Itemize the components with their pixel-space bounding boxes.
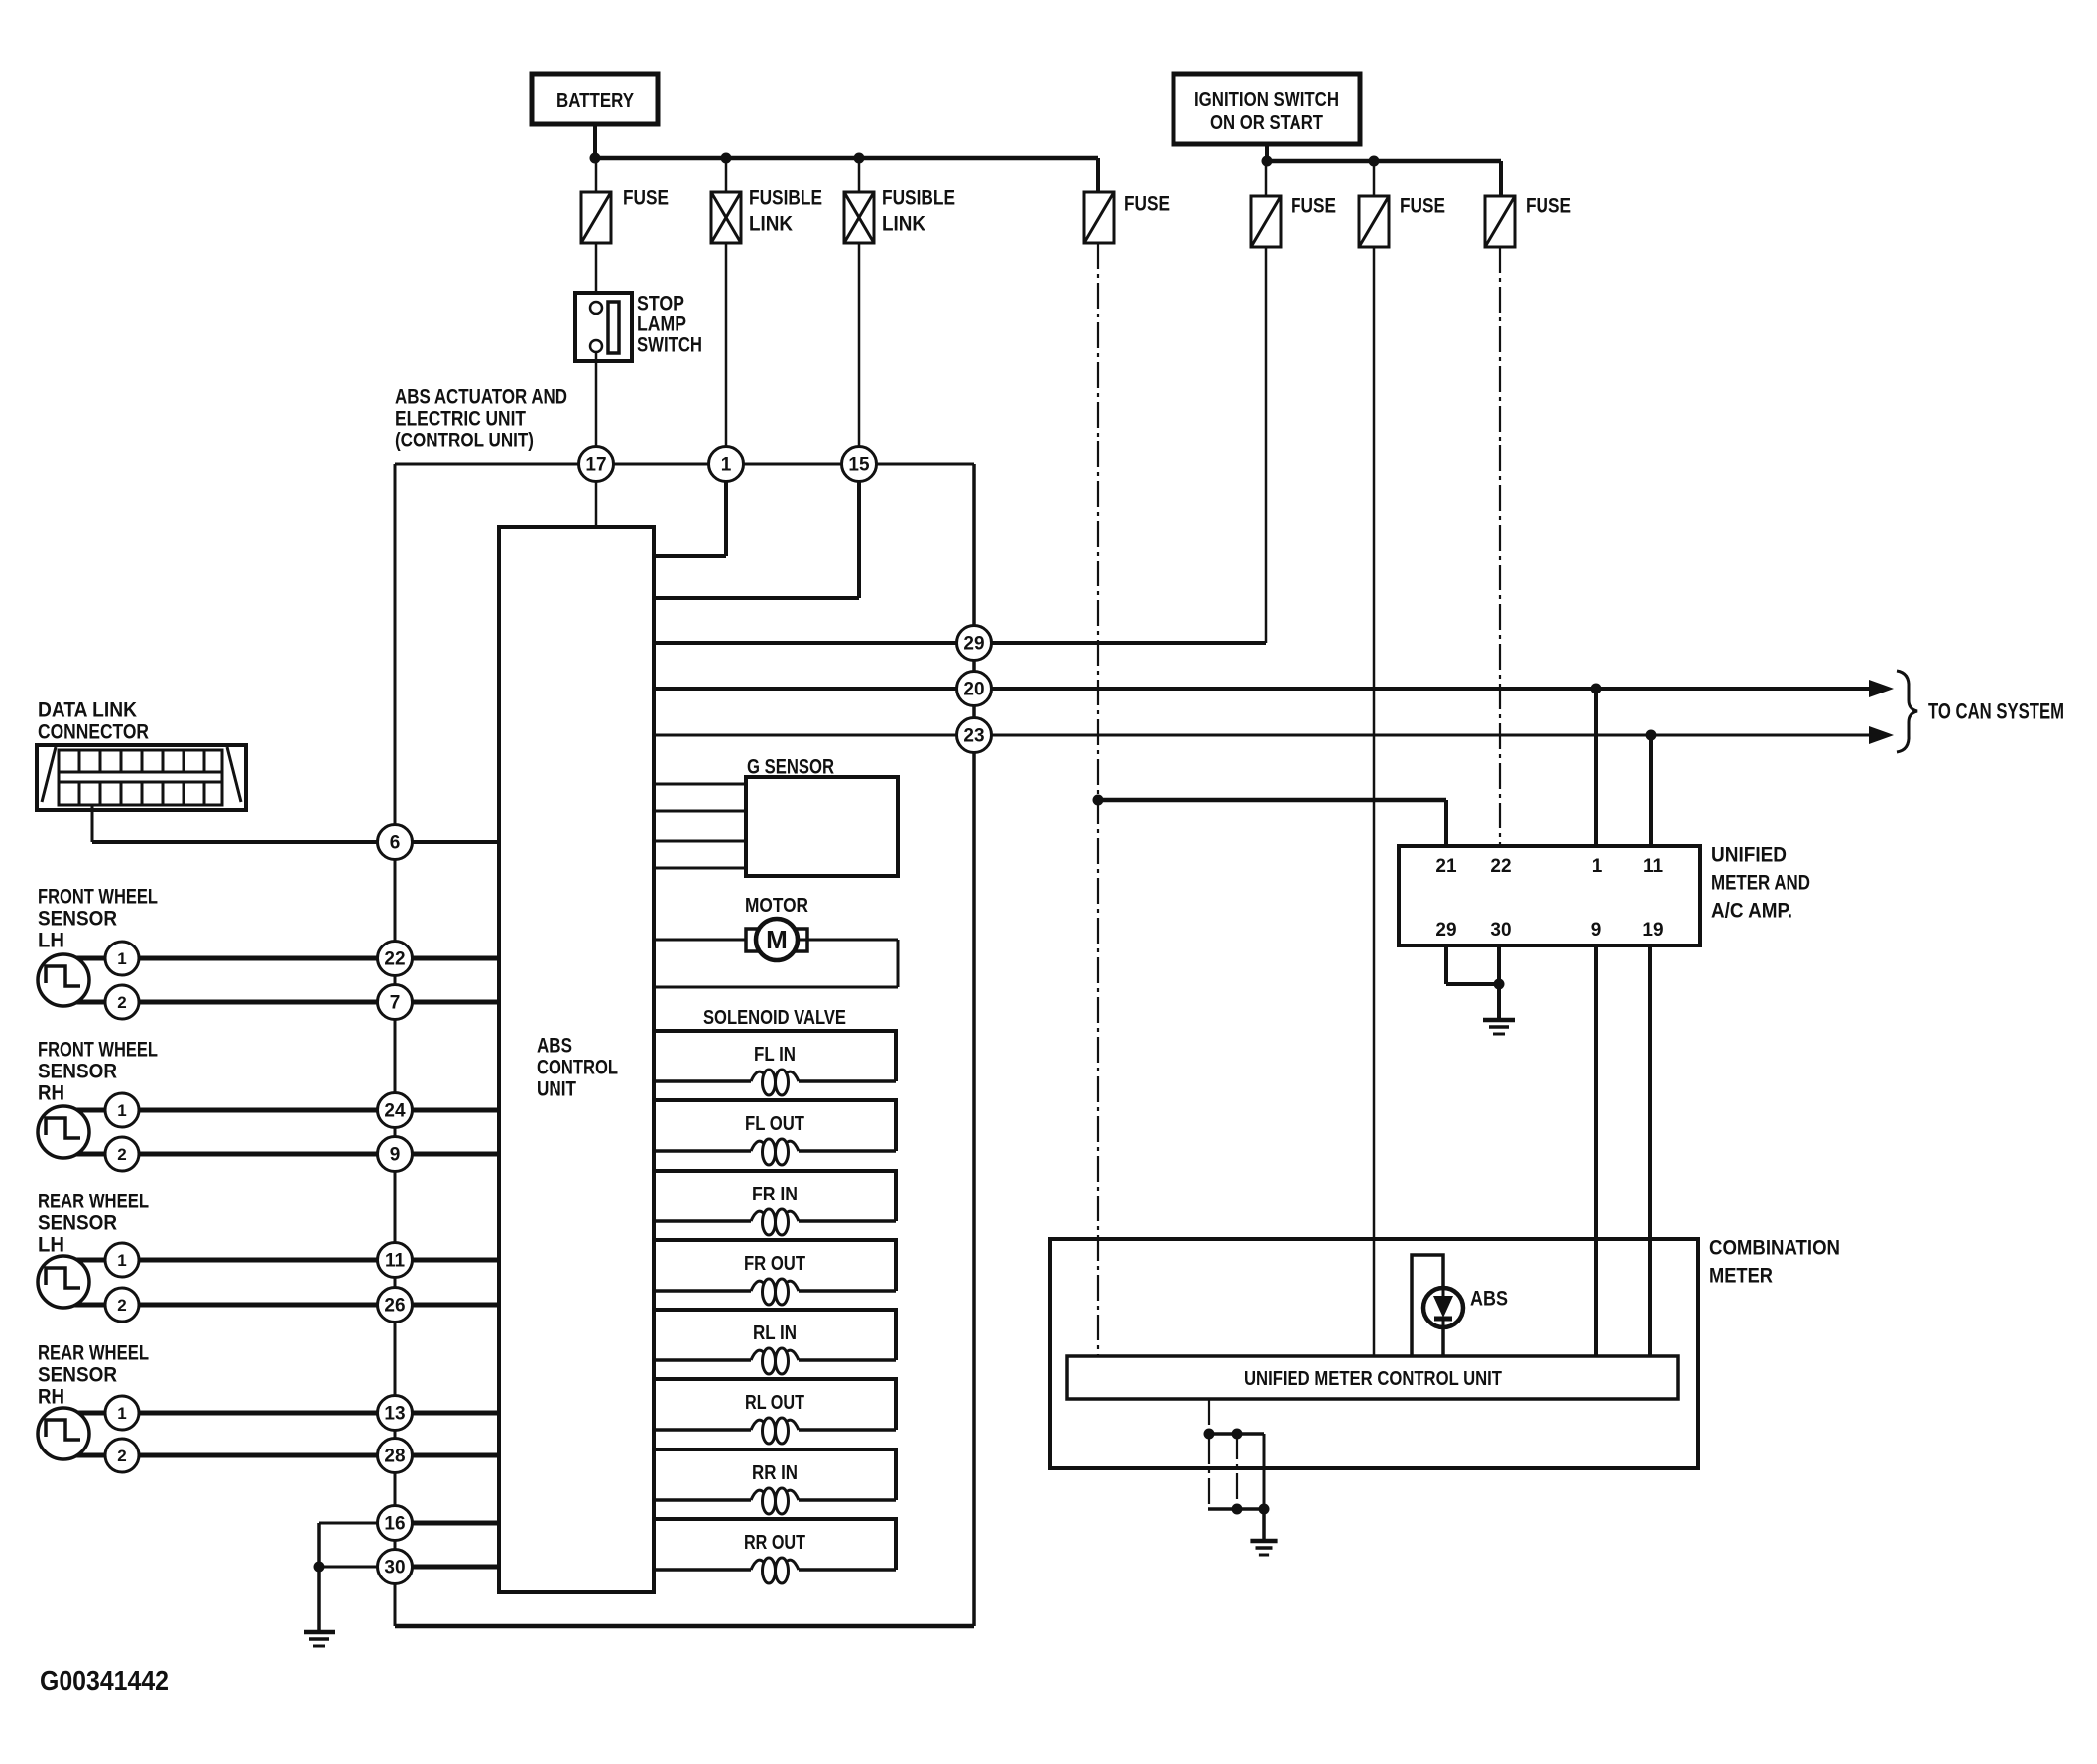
svg-text:1: 1 [1592,856,1603,877]
svg-text:2: 2 [117,1447,126,1465]
battery bus wire [595,156,1098,161]
stop lamp switch label [637,292,702,356]
wire sensor LH link1 [63,1258,109,1263]
wire fuse F4 branch to pin 21 [1098,800,1446,846]
pin 11 connector circle [378,1243,413,1278]
wire unified meter pin 29 to ground [1446,945,1499,984]
svg-text:FUSIBLE: FUSIBLE [882,187,955,209]
stop lamp switch plunger [608,302,619,353]
fusible link FL1 label [749,187,822,235]
junction CAN-H to unified meter pin 1 [1591,684,1602,694]
wire pin 23 CAN-L line [654,734,1871,737]
svg-text:21: 21 [1435,856,1457,877]
arrowhead CAN-L [1869,726,1894,744]
junction ignition bus at fuse F5 [1262,156,1273,167]
svg-text:RL OUT: RL OUT [745,1392,804,1414]
wire pin 29 line to ignition fuse F5 [654,641,1266,645]
sensor LH pin 2 circle [105,1288,139,1322]
svg-text:1: 1 [117,1101,126,1120]
pin 29 connector circle [957,626,992,661]
ground ABS control unit [304,1632,335,1646]
pin 1 connector circle [709,447,744,482]
wire pin 16 [319,1523,499,1634]
unified meter and A/C amp box [1399,846,1700,945]
wire fuse F5 down to CAN pin 29 line [1265,247,1268,643]
wire fuse F4 to unified meter control unit (dash-dot) [1097,243,1099,1356]
svg-text:UNIFIED: UNIFIED [1711,843,1787,866]
svg-text:LAMP: LAMP [637,313,686,335]
wire meter ground leg C [1263,1434,1266,1509]
svg-text:STOP: STOP [637,292,684,315]
junction tie bottom C [1259,1504,1270,1515]
wire fuse F1 to stop lamp switch [595,243,598,303]
svg-text:RH: RH [38,1385,64,1408]
pin 20 connector circle [957,672,992,706]
svg-text:ON OR START: ON OR START [1210,112,1323,134]
svg-text:BATTERY: BATTERY [556,90,635,112]
svg-text:IGNITION SWITCH: IGNITION SWITCH [1194,89,1339,111]
wire sensor LH link2 [63,1303,109,1308]
pin 16 connector circle [378,1506,413,1541]
ABS control unit label [537,1034,618,1100]
svg-text:ABS: ABS [537,1034,572,1057]
fuse F4 [1084,192,1114,243]
sensor RH pin 1 circle [105,1093,139,1127]
svg-text:REAR WHEEL: REAR WHEEL [38,1190,149,1212]
svg-text:SENSOR: SENSOR [38,1060,117,1082]
wire bus to fusible link FL2 [858,158,861,192]
pin 7 connector circle [378,985,413,1020]
combination meter label [1709,1236,1840,1287]
ignition bus wire [1267,159,1501,164]
svg-text:LH: LH [38,1233,64,1256]
svg-text:G SENSOR: G SENSOR [747,755,834,778]
G sensor wire 4 [654,867,746,870]
wire fusible link FL1 to pin 1 [725,243,728,447]
pin 26 connector circle [378,1288,413,1323]
wire rear wheel sensor RH pin 2 [95,1453,499,1458]
junction tie bottom B [1232,1504,1243,1515]
svg-text:UNIFIED METER CONTROL UNIT: UNIFIED METER CONTROL UNIT [1244,1368,1502,1390]
svg-text:13: 13 [384,1404,405,1425]
data link connector [37,745,246,810]
wire sensor LH link2 [63,1000,109,1005]
svg-text:ELECTRIC UNIT: ELECTRIC UNIT [395,407,526,430]
battery box [532,74,658,124]
pin 22 connector circle [378,942,413,976]
pin 24 connector circle [378,1093,413,1128]
fuse F6 [1359,196,1389,247]
stop lamp switch body [575,293,632,361]
svg-text:1: 1 [117,949,126,968]
junction battery bus at fusible link 2 [854,153,865,164]
pin 13 connector circle [378,1396,413,1431]
wire meter ground stem [1262,1509,1266,1541]
svg-text:ABS: ABS [1470,1287,1508,1310]
wire ABS warning lamp loop [1412,1255,1443,1356]
svg-text:DATA LINK: DATA LINK [38,698,137,721]
wire bus to fuse F5 [1265,161,1268,196]
solenoid valve RR OUT [654,1519,896,1583]
svg-text:FR IN: FR IN [752,1184,798,1205]
ABS actuator and electric unit outer box [395,464,974,1626]
wire sensor RH link1 [63,1411,109,1416]
svg-text:7: 7 [390,993,401,1014]
wire pin 15 riser [654,481,859,598]
ignition switch feed wire [1265,144,1269,161]
fuse F7 [1485,196,1515,247]
wire pin 1 riser [654,481,726,556]
svg-text:29: 29 [963,634,984,655]
wire meter ground tie top [1209,1432,1264,1436]
ground unified meter [1483,1020,1515,1034]
pin 6 connector circle [378,825,413,860]
wire sensor RH link2 [63,1152,109,1157]
wire meter ground tie bottom [1208,1507,1264,1511]
junction fuse F4 branch [1093,795,1104,806]
wire bus to fuse F1 [595,158,598,192]
G sensor box [746,777,898,876]
ABS warning lamp LED [1423,1288,1463,1327]
stop lamp switch terminal 2 [590,340,602,352]
combination meter box [1050,1239,1698,1468]
motor M1 [746,919,807,960]
svg-text:METER AND: METER AND [1711,871,1810,894]
svg-text:SWITCH: SWITCH [637,333,702,356]
svg-text:2: 2 [117,993,126,1012]
svg-text:20: 20 [963,680,984,700]
svg-text:11: 11 [385,1251,406,1272]
svg-text:9: 9 [390,1145,401,1166]
wire meter ground leg A [1208,1399,1210,1509]
svg-text:SENSOR: SENSOR [38,1363,117,1386]
svg-text:15: 15 [848,455,870,476]
rear wheel sensor RH [38,1408,89,1459]
svg-text:2: 2 [117,1296,126,1315]
solenoid valve RL IN [654,1310,896,1374]
sensor LH pin 1 circle [105,1243,139,1277]
sensor LH pin 1 circle [105,942,139,975]
pin 17 connector circle [579,447,614,482]
solenoid valve FL IN [654,1031,896,1095]
svg-text:FL OUT: FL OUT [745,1113,804,1135]
wire front wheel sensor RH pin 2 [95,1152,499,1157]
solenoid valve RR IN [654,1449,896,1514]
wire meter ground leg B [1236,1434,1238,1509]
sensor LH pin 2 circle [105,985,139,1019]
wire unified meter pin 1 to CAN-H [1594,689,1598,846]
svg-text:LINK: LINK [882,212,925,235]
pin 9 connector circle [378,1137,413,1172]
svg-text:FR OUT: FR OUT [744,1253,805,1275]
svg-text:2: 2 [117,1145,126,1164]
svg-text:9: 9 [1591,920,1602,941]
junction tie top B [1232,1429,1243,1440]
svg-text:30: 30 [384,1558,405,1578]
svg-text:30: 30 [1490,920,1511,941]
sensor RH pin 2 circle [105,1137,139,1171]
fusible link FL2 [844,192,874,243]
front wheel sensor LH label [38,885,158,951]
svg-text:28: 28 [384,1447,405,1467]
svg-text:1: 1 [117,1404,126,1423]
data link connector label [38,698,149,743]
wire unified meter pin 9 to meter control unit [1594,945,1598,1356]
wire front wheel sensor RH pin 1 [95,1108,499,1113]
rear wheel sensor LH [38,1256,89,1308]
front wheel sensor RH label [38,1038,158,1104]
pin 28 connector circle [378,1439,413,1473]
wire front wheel sensor LH pin 2 [95,1000,499,1005]
svg-text:FL IN: FL IN [754,1044,796,1066]
wire stop lamp switch to pin 17 [595,352,598,447]
solenoid valve FL OUT [654,1100,896,1165]
wire pin 17 into ABS control unit [595,481,598,527]
wire rear wheel sensor LH pin 1 [95,1258,499,1263]
stop lamp switch terminal 1 [590,302,602,314]
brace TO CAN SYSTEM [1897,671,1917,752]
svg-text:G00341442: G00341442 [40,1665,169,1696]
solenoid valve FR OUT [654,1240,896,1305]
pin 15 connector circle [842,447,877,482]
svg-text:FUSIBLE: FUSIBLE [749,187,822,209]
wire fuse F7 to unified meter pin 22 (dash-dot) [1499,247,1501,846]
junction battery bus at fuse [590,153,601,164]
junction pins 29/30 [1494,979,1505,990]
wire fusible link FL2 to pin 15 [858,243,861,447]
junction ground 16/30 [314,1562,325,1573]
fuse F5 [1251,196,1281,247]
svg-text:LINK: LINK [749,212,793,235]
pin 23 connector circle [957,718,992,753]
wire rear wheel sensor LH pin 2 [95,1303,499,1308]
junction CAN-L to unified meter pin 11 [1646,730,1657,741]
svg-text:23: 23 [963,726,984,747]
ABS control unit box [499,527,654,1592]
arrowhead CAN-H [1869,680,1894,697]
svg-text:ABS ACTUATOR AND: ABS ACTUATOR AND [395,385,567,408]
svg-text:RL IN: RL IN [753,1323,797,1344]
G sensor wire 2 [654,810,746,813]
svg-text:LH: LH [38,929,64,951]
svg-text:UNIT: UNIT [537,1077,576,1100]
svg-text:FUSE: FUSE [623,187,669,209]
wire bus to fuse F6 [1373,161,1376,196]
junction battery bus at fusible link 1 [721,153,732,164]
svg-text:A/C AMP.: A/C AMP. [1711,899,1792,922]
G sensor wire 1 [654,783,746,786]
battery B+ supply wire [593,124,597,158]
solenoid valve FR IN [654,1171,896,1235]
wire sensor RH link1 [63,1108,109,1113]
svg-text:16: 16 [384,1514,405,1535]
svg-text:22: 22 [384,949,405,970]
front wheel sensor RH [38,1106,89,1158]
wire front wheel sensor LH pin 1 [95,956,499,961]
svg-text:TO CAN SYSTEM: TO CAN SYSTEM [1928,699,2064,724]
wire sensor RH link2 [63,1453,109,1458]
svg-text:CONNECTOR: CONNECTOR [38,720,149,743]
rear wheel sensor RH label [38,1341,149,1408]
svg-text:RH: RH [38,1081,64,1104]
wire unified meter pin 11 to CAN-L [1649,735,1653,846]
svg-text:24: 24 [384,1101,406,1122]
svg-text:M: M [766,925,788,954]
wire ignition bus drop to fuse F7 [1499,161,1503,196]
wire bus to fusible link FL1 [725,158,728,192]
motor return wire [654,940,898,987]
svg-text:FUSE: FUSE [1400,194,1445,217]
fusible link FL1 [711,192,741,243]
svg-text:22: 22 [1490,856,1511,877]
svg-text:29: 29 [1435,920,1456,941]
motor supply wire [654,939,746,942]
solenoid valve RL OUT [654,1379,896,1444]
svg-text:17: 17 [585,455,606,476]
wire bus drop to fuse F4 [1096,158,1100,192]
svg-text:FRONT WHEEL: FRONT WHEEL [38,1038,158,1061]
svg-text:METER: METER [1709,1264,1773,1287]
wire unified meter pin 30 to ground [1497,945,1501,1020]
svg-text:1: 1 [721,455,732,476]
svg-text:REAR WHEEL: REAR WHEEL [38,1341,149,1364]
svg-text:CONTROL: CONTROL [537,1056,618,1078]
fusible link FL2 label [882,187,955,235]
svg-text:1: 1 [117,1251,126,1270]
svg-text:FUSE: FUSE [1124,192,1170,215]
wire fuse F6 to unified meter control unit [1373,247,1376,1356]
svg-text:COMBINATION: COMBINATION [1709,1236,1840,1259]
svg-text:SENSOR: SENSOR [38,1211,117,1234]
wire pin 20 CAN-H line [654,687,1871,691]
G sensor wire 3 [654,840,746,843]
svg-text:MOTOR: MOTOR [745,895,808,917]
svg-text:SOLENOID VALVE: SOLENOID VALVE [703,1007,846,1029]
ignition switch box [1173,74,1360,144]
unified meter label [1711,843,1810,922]
svg-text:FUSE: FUSE [1291,194,1336,217]
wire unified meter pin 19 to meter control unit [1648,945,1652,1356]
front wheel sensor LH [38,954,89,1006]
pin 30 connector circle [378,1550,413,1584]
sensor RH pin 2 circle [105,1439,139,1472]
wire data link connector to pin 6 [92,806,499,842]
svg-text:6: 6 [390,833,401,854]
svg-text:SENSOR: SENSOR [38,907,117,930]
ABS actuator label [395,385,567,451]
junction ignition bus at fuse F6 [1369,156,1380,167]
svg-text:26: 26 [384,1296,405,1317]
sensor RH pin 1 circle [105,1396,139,1430]
junction tie top A [1204,1429,1215,1440]
svg-text:FRONT WHEEL: FRONT WHEEL [38,885,158,908]
wire rear wheel sensor RH pin 1 [95,1411,499,1416]
wire pin 30 [319,1566,499,1569]
svg-text:11: 11 [1643,856,1664,877]
wire sensor LH link1 [63,956,109,961]
svg-text:RR OUT: RR OUT [744,1532,805,1554]
fuse F1 [581,192,611,243]
svg-text:FUSE: FUSE [1526,194,1571,217]
svg-text:(CONTROL UNIT): (CONTROL UNIT) [395,429,534,451]
svg-text:19: 19 [1642,920,1663,941]
svg-text:RR IN: RR IN [752,1462,798,1484]
rear wheel sensor LH label [38,1190,149,1256]
unified meter control unit bar [1067,1356,1678,1399]
ground combination meter [1250,1541,1277,1555]
